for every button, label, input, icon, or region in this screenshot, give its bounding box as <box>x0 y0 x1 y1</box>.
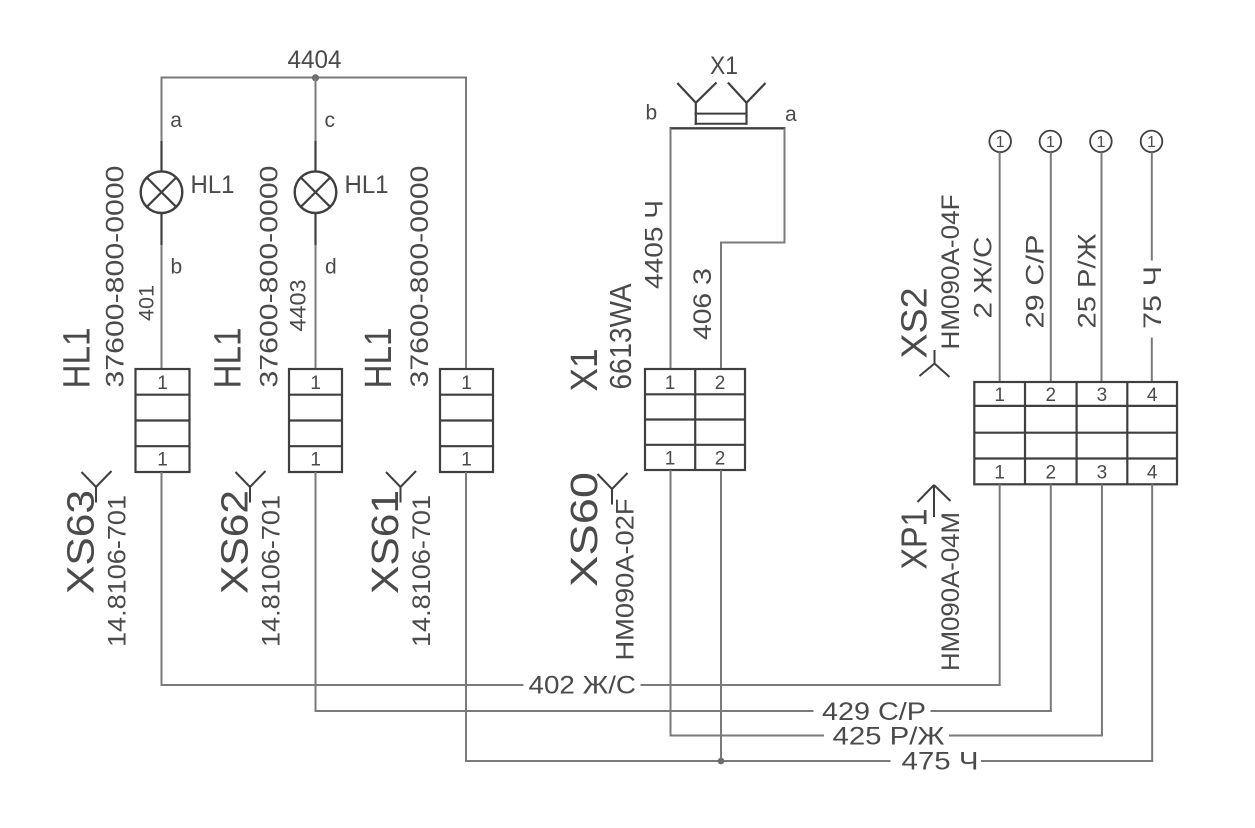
wire label 29 С/Р <box>1022 235 1050 329</box>
wire 4404 bus (horizontal) <box>161 77 468 79</box>
svg-text:1: 1 <box>1046 134 1055 151</box>
wire XP1 pin 4 down <box>1151 484 1153 762</box>
wire XS61 to bus 475 <box>465 472 467 762</box>
svg-text:XS63: XS63 <box>61 490 103 594</box>
svg-text:37600-800-0000: 37600-800-0000 <box>256 166 284 388</box>
terminal circle 1 (col 4) <box>1141 131 1163 153</box>
lamp HL1 (2) <box>295 171 337 213</box>
wire XP1 pin 1 down <box>999 484 1001 686</box>
label XP1 <box>894 509 935 570</box>
svg-text:402 Ж/С: 402 Ж/С <box>529 672 637 700</box>
pin label b (HL1 lamp 1) <box>171 256 183 279</box>
svg-text:1: 1 <box>994 385 1005 406</box>
pin number 3 bottom (XP1) <box>1097 462 1108 483</box>
svg-text:2: 2 <box>715 448 726 469</box>
svg-text:a: a <box>785 103 797 126</box>
pin number 1 bottom (XS61) <box>461 450 472 471</box>
svg-text:401: 401 <box>136 285 159 321</box>
pin number 1 top (XS62) <box>310 373 321 394</box>
wire label 25 Р/Ж <box>1074 234 1102 329</box>
svg-text:1: 1 <box>665 373 676 394</box>
svg-text:2 Ж/С: 2 Ж/С <box>970 237 998 319</box>
wire branch a (XS63 top) <box>161 77 163 370</box>
svg-text:37600-800-0000: 37600-800-0000 <box>406 166 434 388</box>
svg-text:2: 2 <box>715 373 726 394</box>
wire number 401 <box>136 285 159 321</box>
label HL1 designator (col 2) <box>208 328 250 389</box>
wire 402 (right segment) <box>641 684 1001 686</box>
wire label 402 Ж/С <box>529 672 637 700</box>
svg-text:29 С/Р: 29 С/Р <box>1022 235 1050 329</box>
connector symbol fork (XS60) <box>598 473 628 505</box>
svg-text:4: 4 <box>1147 462 1158 483</box>
label HL1 beside lamp 2 <box>345 171 389 199</box>
svg-text:HM090A-02F: HM090A-02F <box>612 499 640 661</box>
pin number 1 top (XS2) <box>994 385 1005 406</box>
svg-text:6613WA: 6613WA <box>603 283 638 389</box>
terminal circle 1 (col 1) <box>989 131 1011 153</box>
svg-text:3: 3 <box>1097 385 1108 406</box>
wire X1 pin 2 to bus 475 <box>720 470 722 762</box>
svg-text:HL1: HL1 <box>208 328 250 389</box>
pin number 1 bottom (XS63) <box>157 450 168 471</box>
label XS62 <box>215 490 257 594</box>
pin label c (HL1 lamp 2) <box>325 109 336 132</box>
component X1 socket symbol <box>670 83 786 129</box>
svg-text:a: a <box>170 109 182 132</box>
pin number 2 bottom (X1) <box>715 448 726 469</box>
svg-text:HL1: HL1 <box>358 328 400 389</box>
svg-text:X1: X1 <box>710 52 738 80</box>
lamp HL1 (1) <box>141 171 183 213</box>
svg-text:425 Р/Ж: 425 Р/Ж <box>833 723 945 751</box>
label HM090A-04F <box>937 195 965 350</box>
pin label b (X1) <box>646 102 658 125</box>
pin label a (X1) <box>785 103 797 126</box>
label 6613WA <box>603 283 638 389</box>
junction 4404 <box>312 74 319 81</box>
svg-text:3: 3 <box>1097 462 1108 483</box>
lamp HL1 lead bottom (2) <box>314 212 316 245</box>
connector X1 block <box>645 369 745 470</box>
wire 475 (left segment) <box>465 760 891 762</box>
lamp HL1 lead bottom (1) <box>160 212 162 245</box>
pin number 1 top (XS61) <box>461 373 472 394</box>
wire XP1 pin 3 down <box>1101 484 1103 736</box>
svg-text:b: b <box>171 256 183 279</box>
svg-text:1: 1 <box>665 448 676 469</box>
wire XS2 pin 4 up (upper) <box>1151 152 1153 260</box>
label XS2 <box>894 288 935 359</box>
pin label a (HL1 lamp 1) <box>170 109 182 132</box>
wire XS2 pin 1 up <box>999 152 1001 382</box>
label HM090A-02F <box>612 499 640 661</box>
wire label 429 С/Р <box>822 698 926 726</box>
svg-text:b: b <box>646 102 658 125</box>
svg-text:4403: 4403 <box>286 280 311 332</box>
pin number 1 bottom (XP1) <box>994 462 1005 483</box>
wire 475 (right segment) <box>981 760 1153 762</box>
pin number 1 bottom (X1) <box>665 448 676 469</box>
svg-text:14.8106-701: 14.8106-701 <box>104 495 132 647</box>
wire XS63 to bus 402 <box>161 472 163 686</box>
pin number 3 top (XS2) <box>1097 385 1108 406</box>
label HL1 designator (col 1) <box>57 328 99 389</box>
pin number 2 bottom (XP1) <box>1046 462 1057 483</box>
svg-text:1: 1 <box>461 450 472 471</box>
connector symbol fork (XS63) <box>82 471 112 503</box>
svg-text:HL1: HL1 <box>345 171 389 199</box>
svg-text:475 Ч: 475 Ч <box>902 748 979 776</box>
pin number 4 top (XS2) <box>1147 385 1158 406</box>
svg-text:1: 1 <box>1147 134 1156 151</box>
pin number 4 bottom (XP1) <box>1147 462 1158 483</box>
label XS61 <box>365 490 407 594</box>
terminal circle 1 (col 2) <box>1040 131 1062 153</box>
wire XP1 pin 2 down <box>1050 484 1052 712</box>
pin number 2 top (X1) <box>715 373 726 394</box>
svg-text:XS2: XS2 <box>894 288 935 359</box>
label HM090A-04M <box>937 512 965 671</box>
label HL1 designator (col 3) <box>358 328 400 389</box>
svg-text:HM090A-04F: HM090A-04F <box>937 195 965 350</box>
label 14.8106-701 (XS63) <box>104 495 132 647</box>
wire 429 (right segment) <box>931 710 1052 712</box>
svg-text:14.8106-701: 14.8106-701 <box>408 495 436 647</box>
connector XS63 block <box>136 369 190 472</box>
label 14.8106-701 (XS62) <box>258 495 286 647</box>
lamp HL1 lead top (2) <box>314 141 316 172</box>
svg-text:2: 2 <box>1046 462 1057 483</box>
wire label 425 Р/Ж <box>833 723 945 751</box>
wire X1 pin a to block <box>720 242 722 370</box>
svg-text:HL1: HL1 <box>191 171 235 199</box>
svg-text:XS60: XS60 <box>564 472 606 587</box>
wire XS2 pin 3 up <box>1101 152 1103 382</box>
wire label 2 Ж/С <box>970 237 998 319</box>
wire branch c (XS62 top) <box>315 78 317 370</box>
wire branch XS61 top <box>465 77 467 370</box>
junction 475 / X1 pin 2 <box>718 758 725 765</box>
svg-text:4404: 4404 <box>288 46 342 74</box>
label 37600-800-0000 (col 2) <box>256 166 284 388</box>
wire 425 (left segment) <box>670 735 825 737</box>
wire number 406 З <box>689 268 717 340</box>
wire number 4405 Ч <box>641 200 669 289</box>
wire label 475 Ч <box>902 748 979 776</box>
connector XS62 block <box>289 369 342 472</box>
pin label d (HL1 lamp 2) <box>325 256 337 279</box>
svg-text:37600-800-0000: 37600-800-0000 <box>102 166 130 388</box>
pin number 1 top (X1) <box>665 373 676 394</box>
svg-text:1: 1 <box>157 373 168 394</box>
svg-text:XP1: XP1 <box>894 509 935 570</box>
pin number 1 bottom (XS62) <box>310 450 321 471</box>
connector symbol arrow (XP1) <box>918 485 951 517</box>
wire 402 (left segment) <box>161 684 524 686</box>
svg-text:1: 1 <box>310 373 321 394</box>
connector symbol fork (XS2) <box>920 350 950 377</box>
label XS60 <box>564 472 606 587</box>
svg-text:HL1: HL1 <box>57 328 99 389</box>
svg-text:1: 1 <box>994 462 1005 483</box>
svg-text:4: 4 <box>1147 385 1158 406</box>
wire number 4403 <box>286 280 311 332</box>
wire XS2 pin 2 up <box>1050 152 1052 382</box>
label 37600-800-0000 (col 1) <box>102 166 130 388</box>
wire X1 pin a down <box>784 128 786 243</box>
svg-text:25 Р/Ж: 25 Р/Ж <box>1074 234 1102 329</box>
label 37600-800-0000 (col 3) <box>406 166 434 388</box>
svg-text:XS61: XS61 <box>365 490 407 594</box>
label X1 designator <box>564 349 606 392</box>
svg-text:406 З: 406 З <box>689 268 717 340</box>
wire X1 pin b down <box>670 128 672 369</box>
svg-text:X1: X1 <box>564 349 606 392</box>
label X1 (top) <box>710 52 738 80</box>
node 4404 label <box>288 46 342 74</box>
label HL1 beside lamp 1 <box>191 171 235 199</box>
pin number 2 top (XS2) <box>1046 385 1057 406</box>
wire label 75 Ч <box>1139 266 1167 329</box>
svg-text:75 Ч: 75 Ч <box>1139 266 1167 329</box>
svg-text:1: 1 <box>157 450 168 471</box>
svg-text:1: 1 <box>461 373 472 394</box>
connector symbol fork (XS62) <box>236 471 266 503</box>
wire XS2 pin 4 up (lower) <box>1151 338 1153 383</box>
svg-text:4405 Ч: 4405 Ч <box>641 200 669 289</box>
label 14.8106-701 (XS61) <box>408 495 436 647</box>
label XS63 <box>61 490 103 594</box>
connector XS2/XP1 block <box>974 382 1177 484</box>
wire 429 (left segment) <box>315 710 814 712</box>
connector symbol fork (XS61) <box>386 471 416 503</box>
pin number 1 top (XS63) <box>157 373 168 394</box>
wire XS62 to bus 429 <box>315 472 317 712</box>
svg-text:1: 1 <box>996 134 1005 151</box>
svg-text:d: d <box>325 256 337 279</box>
svg-text:XS62: XS62 <box>215 490 257 594</box>
connector XS61 block <box>440 369 493 472</box>
wire X1 pin a jog <box>721 242 786 244</box>
lamp HL1 lead top (1) <box>160 141 162 172</box>
wire 425 (right segment) <box>949 735 1103 737</box>
wire X1 pin 1 to bus 425 <box>670 470 672 737</box>
svg-text:HM090A-04M: HM090A-04M <box>937 512 965 671</box>
svg-text:c: c <box>325 109 336 132</box>
svg-text:14.8106-701: 14.8106-701 <box>258 495 286 647</box>
terminal circle 1 (col 3) <box>1090 131 1112 153</box>
svg-text:1: 1 <box>310 450 321 471</box>
svg-text:1: 1 <box>1096 134 1105 151</box>
svg-text:2: 2 <box>1046 385 1057 406</box>
